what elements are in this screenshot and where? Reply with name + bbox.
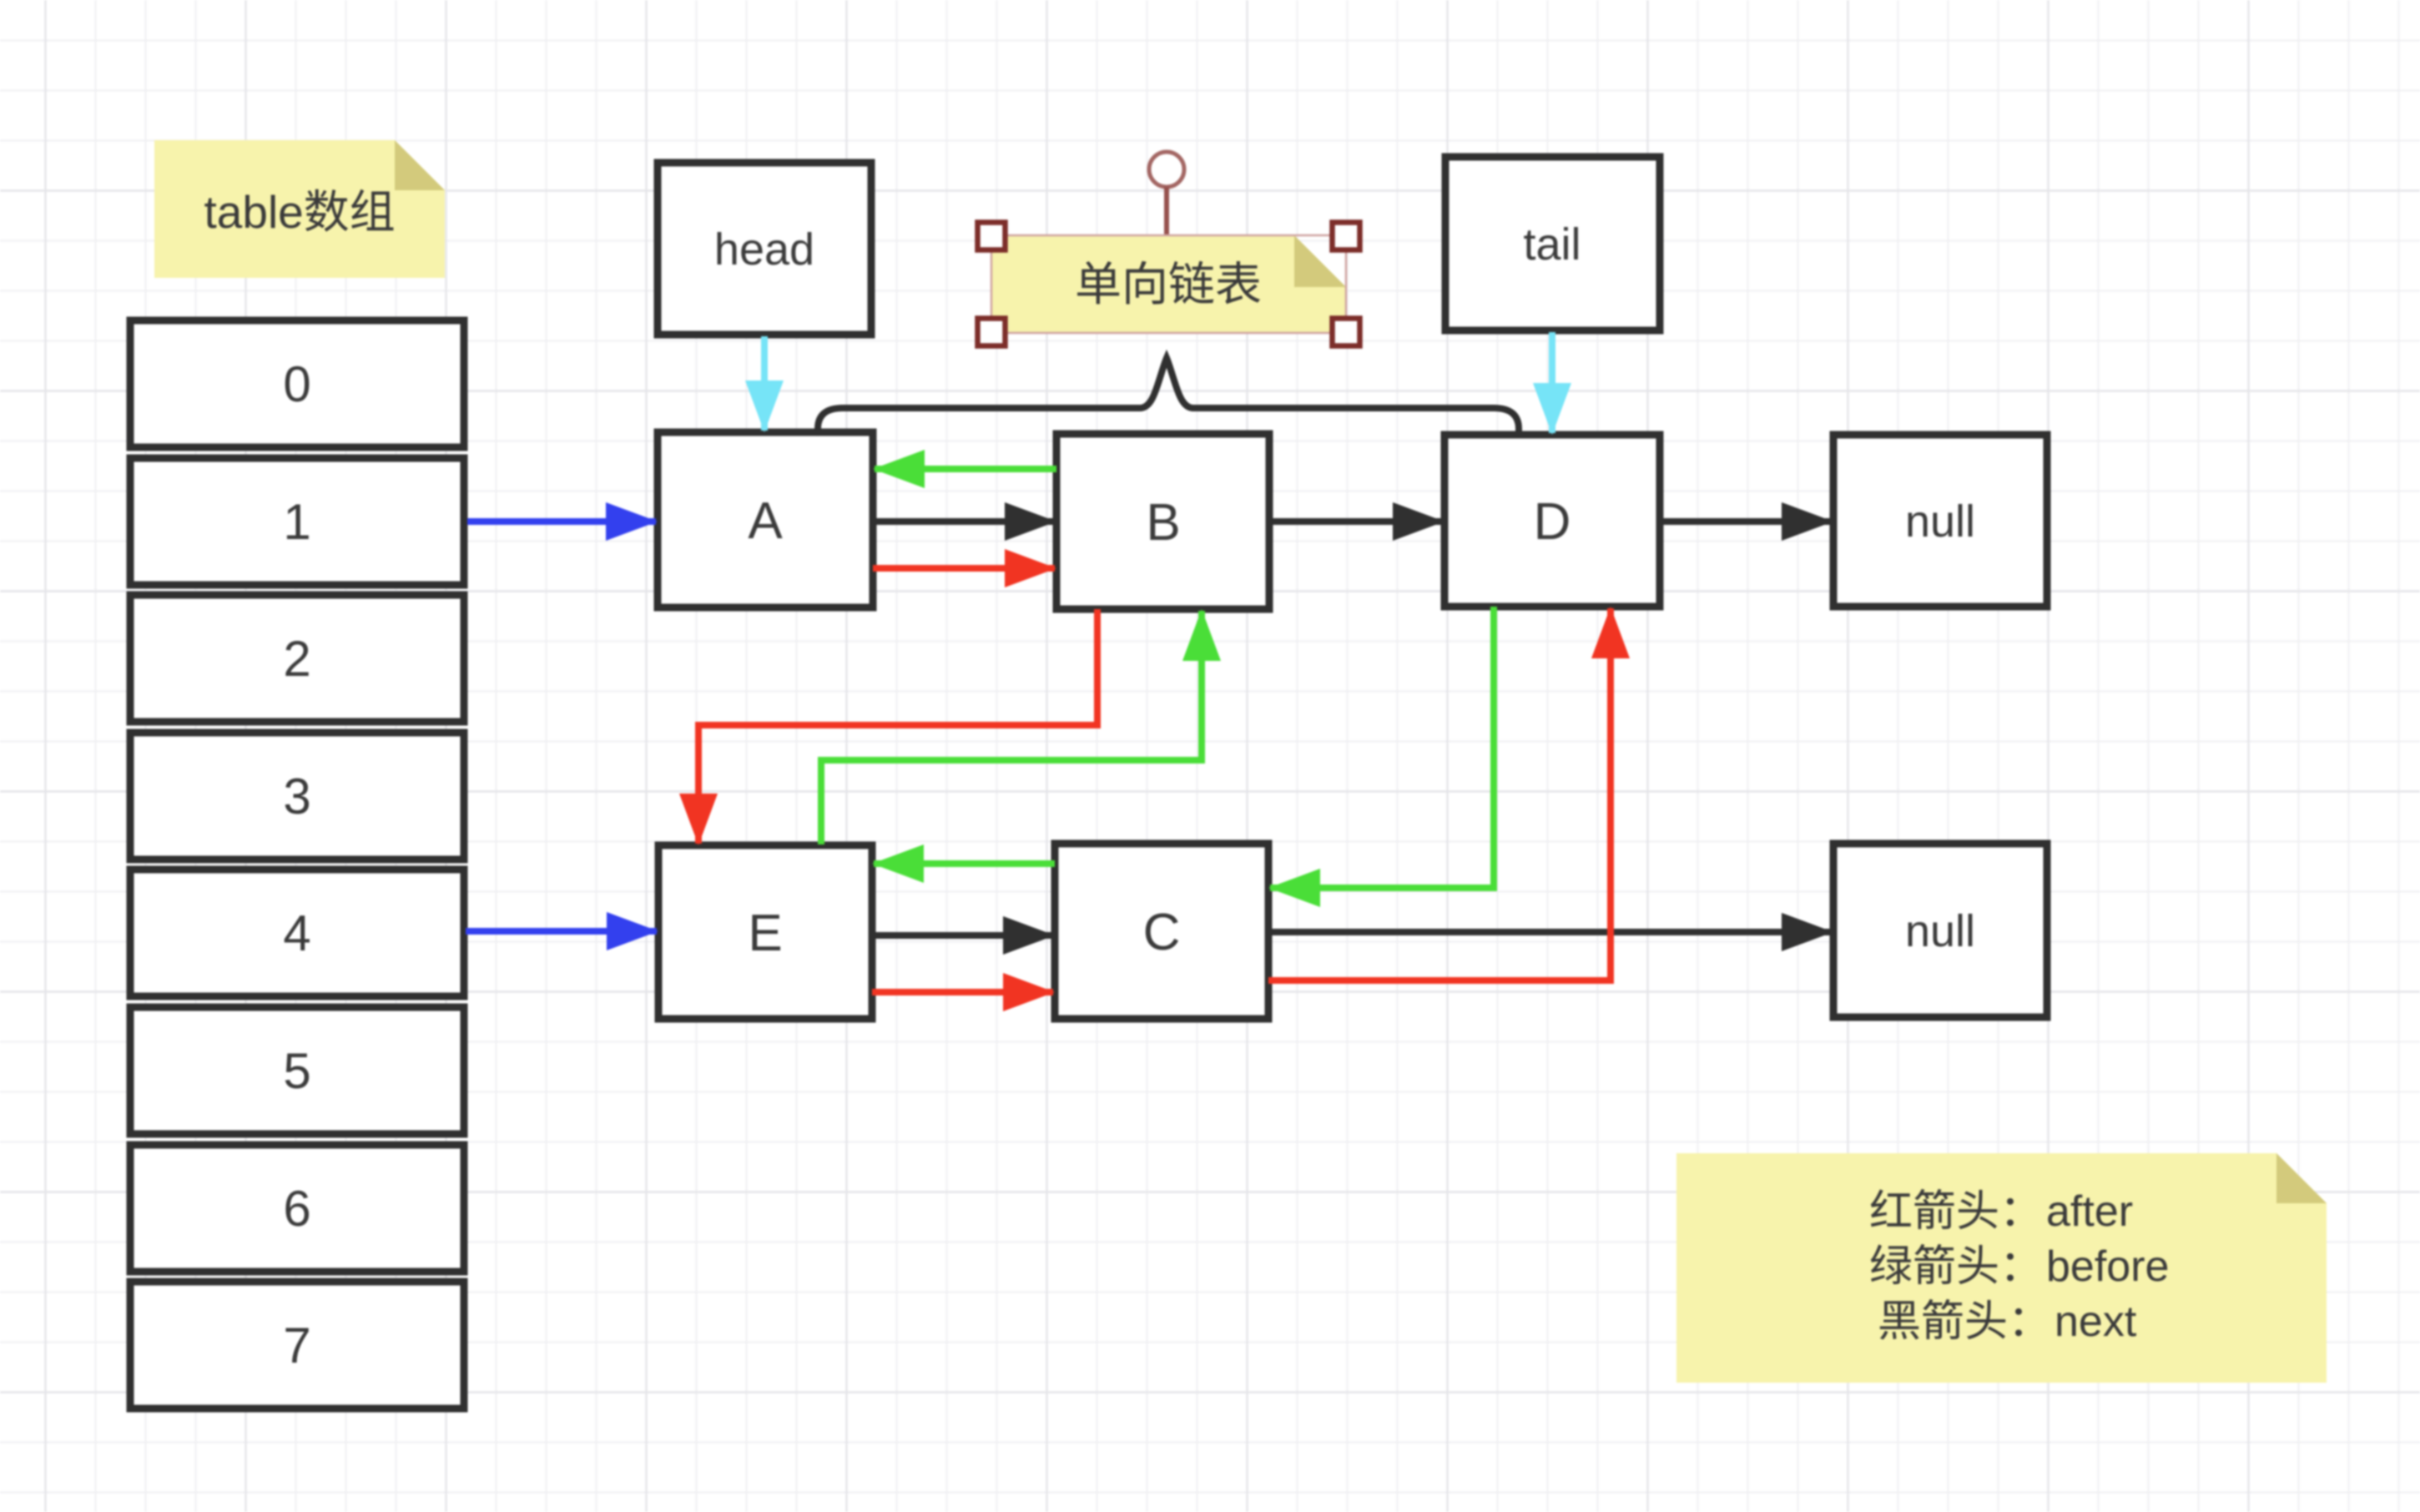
svg-text:tail: tail	[1523, 219, 1581, 270]
svg-text:1: 1	[283, 494, 310, 550]
svg-text:6: 6	[283, 1181, 310, 1237]
svg-text:C: C	[1143, 904, 1181, 961]
svg-text:5: 5	[283, 1043, 310, 1099]
svg-text:table: table	[204, 186, 304, 238]
svg-text:0: 0	[283, 356, 310, 412]
svg-text:2: 2	[283, 631, 310, 687]
svg-text:7: 7	[283, 1318, 310, 1373]
svg-text:null: null	[1905, 906, 1975, 956]
svg-text:null: null	[1905, 496, 1975, 547]
svg-text:E: E	[748, 905, 782, 962]
svg-text:B: B	[1146, 494, 1180, 552]
svg-text:before: before	[2046, 1242, 2169, 1291]
svg-text:next: next	[2054, 1298, 2137, 1346]
svg-text:A: A	[748, 492, 783, 550]
svg-text:D: D	[1534, 493, 1571, 551]
svg-text:4: 4	[283, 905, 310, 961]
svg-text:head: head	[714, 224, 814, 275]
svg-text:3: 3	[283, 769, 310, 824]
svg-text:after: after	[2046, 1187, 2133, 1236]
